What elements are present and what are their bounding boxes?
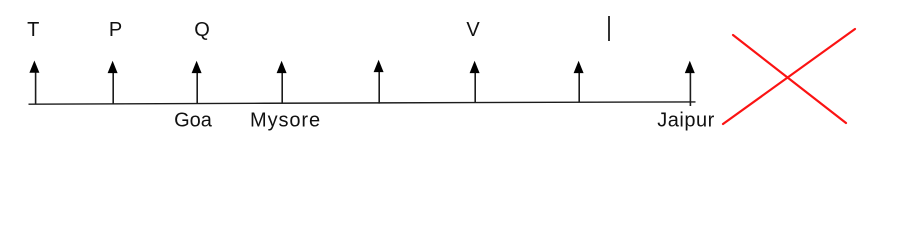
- arrow 1 (point T): [29, 61, 39, 105]
- svg-text:V: V: [466, 19, 480, 41]
- arrow 7: [574, 61, 584, 103]
- axis line: [29, 102, 696, 104]
- arrow 4 (Mysore): [277, 61, 287, 104]
- red cross stroke 1 (top-left to bottom-right): [733, 35, 846, 123]
- svg-text:Jaipur: Jaipur: [657, 110, 714, 132]
- text cursor: [608, 16, 610, 41]
- arrow 8 (Jaipur): [685, 61, 695, 106]
- svg-text:Mysore: Mysore: [250, 110, 321, 132]
- arrow 5: [374, 60, 384, 104]
- svg-text:Q: Q: [194, 19, 210, 41]
- arrow 6 (point V): [470, 61, 480, 103]
- red cross stroke 2 (bottom-left to top-right): [723, 29, 855, 124]
- arrow 2 (point P): [108, 61, 118, 104]
- svg-text:P: P: [109, 19, 122, 41]
- arrow 3 (point Q / Goa): [192, 61, 202, 104]
- svg-text:Goa: Goa: [174, 110, 213, 132]
- svg-text:T: T: [27, 19, 39, 41]
